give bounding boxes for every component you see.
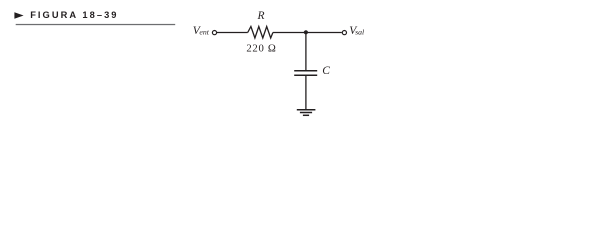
svg-text:sal: sal bbox=[355, 28, 364, 37]
svg-text:C: C bbox=[322, 65, 330, 77]
svg-text:FIGURA 18–39: FIGURA 18–39 bbox=[30, 10, 118, 20]
svg-text:R: R bbox=[257, 10, 265, 22]
svg-text:220 Ω: 220 Ω bbox=[246, 43, 276, 55]
svg-text:ent: ent bbox=[199, 28, 209, 37]
